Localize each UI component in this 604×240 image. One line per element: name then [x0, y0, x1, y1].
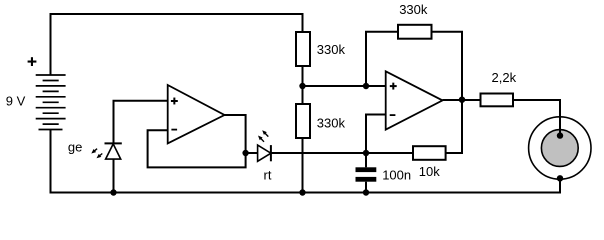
svg-text:10k: 10k: [419, 164, 440, 179]
resistor R2 330k (lower divider): [296, 104, 310, 138]
LED D2 rt: [258, 145, 271, 161]
op-amp U2: [386, 71, 443, 129]
battery B1 9V: [36, 75, 66, 130]
node: divider midpoint: [299, 83, 305, 89]
light arrows out of LED rt: [258, 130, 268, 142]
light arrows of LED ge: [91, 149, 102, 159]
node: positive feedback tap: [363, 83, 369, 89]
wire LED cathode to divider midpoint rail: [271, 152, 366, 154]
wire 10k to U2 output: [446, 100, 462, 153]
node: R2 to ground rail: [299, 189, 305, 195]
wire RC node to 10k: [366, 152, 413, 154]
wire LED anode lead: [246, 152, 258, 154]
svg-text:ge: ge: [68, 139, 82, 154]
capacitor C1 100n: [356, 153, 377, 193]
svg-text:100n: 100n: [382, 167, 411, 182]
label R2 330k: [317, 115, 346, 130]
svg-text:330k: 330k: [399, 2, 428, 17]
wire R3 to U2 output column: [432, 32, 463, 100]
wire earpiece bottom to ground rail: [559, 178, 562, 192]
label ge: [68, 139, 82, 154]
node: capacitor to ground rail: [363, 189, 369, 195]
node: earpiece top terminal: [557, 132, 563, 138]
photodiode D1 ge: [105, 143, 122, 192]
svg-text:9 V: 9 V: [6, 94, 26, 109]
wire top rail from battery + to divider: [51, 14, 303, 75]
resistor R4 10k: [413, 146, 446, 160]
wire divider node to U2 non-inverting input: [303, 85, 386, 87]
label R1 330k: [317, 42, 346, 57]
earpiece LS1: [529, 117, 591, 179]
wire positive feedback riser: [366, 32, 398, 86]
svg-text:2,2k: 2,2k: [492, 70, 517, 85]
label C1 100n: [382, 167, 411, 182]
wire U2 inverting input to RC node: [366, 115, 386, 154]
wire R1 to divider node: [302, 66, 304, 104]
svg-text:330k: 330k: [317, 42, 346, 57]
label rt: [264, 167, 272, 182]
svg-text:330k: 330k: [317, 115, 346, 130]
node: RC timing node: [363, 150, 369, 156]
label R4 10k: [419, 164, 440, 179]
label battery plus: [28, 57, 37, 66]
op-amp U1: [168, 85, 225, 143]
node: earpiece bottom terminal: [557, 175, 563, 181]
wire 2,2k to earpiece top: [513, 100, 560, 136]
resistor R3 330k (positive feedback): [398, 25, 432, 39]
wire photodiode column and + input of U1: [114, 101, 168, 143]
label R5 2,2k: [492, 70, 517, 85]
wire U1 feedback loop (output to inverting input): [148, 115, 246, 167]
resistor R1 330k (upper divider): [296, 32, 310, 66]
resistor R5 2,2k: [481, 94, 514, 107]
label 9 V: [6, 94, 26, 109]
node: U2 output: [459, 97, 465, 103]
svg-text:rt: rt: [264, 167, 272, 182]
wire U2 output: [443, 99, 481, 101]
node: photodiode to ground rail: [110, 189, 116, 195]
node: U1 output / LED anode: [242, 150, 248, 156]
label R3 330k: [399, 2, 428, 17]
wire R2 to ground rail: [302, 138, 304, 193]
wire bottom rail: [51, 130, 560, 193]
